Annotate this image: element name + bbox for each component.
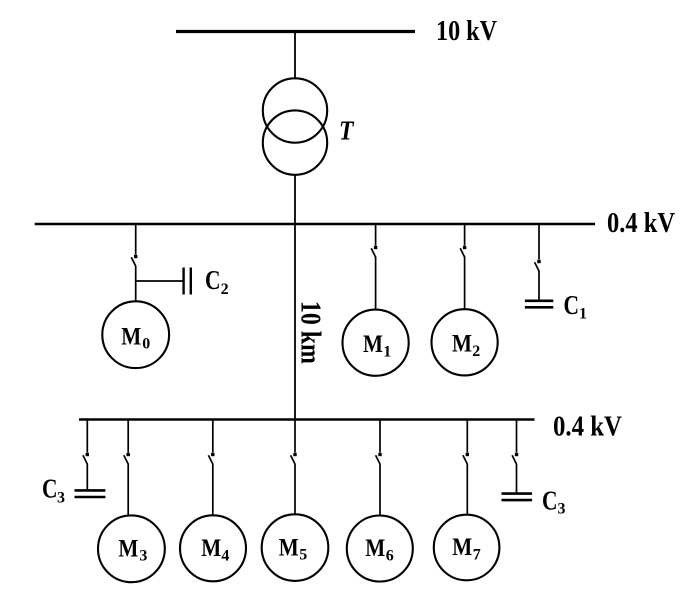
svg-text:M: M [201,535,221,562]
svg-text:C: C [42,473,58,503]
svg-text:3: 3 [139,547,147,564]
svg-text:M: M [118,536,138,563]
svg-text:M: M [365,535,385,562]
svg-text:6: 6 [386,548,394,565]
svg-text:2: 2 [472,343,480,360]
svg-text:7: 7 [473,547,481,564]
svg-text:3: 3 [558,501,566,518]
svg-text:C: C [205,265,221,295]
svg-text:M: M [279,534,299,561]
svg-text:1: 1 [579,306,587,323]
svg-text:5: 5 [299,547,307,564]
svg-text:0.4 kV: 0.4 kV [553,411,622,442]
svg-text:M: M [363,331,383,358]
svg-text:10 km: 10 km [295,301,326,364]
svg-text:0: 0 [142,335,150,352]
svg-text:3: 3 [57,490,65,507]
svg-text:M: M [452,331,472,358]
svg-text:M: M [452,534,472,561]
svg-text:M: M [121,324,141,351]
svg-text:2: 2 [221,281,229,298]
svg-text:C: C [564,290,580,320]
svg-text:0.4 kV: 0.4 kV [607,208,675,239]
svg-text:4: 4 [221,547,229,564]
svg-text:1: 1 [383,343,391,360]
svg-text:C: C [542,486,558,516]
svg-text:10 kV: 10 kV [436,16,497,47]
svg-text:T: T [339,115,355,145]
